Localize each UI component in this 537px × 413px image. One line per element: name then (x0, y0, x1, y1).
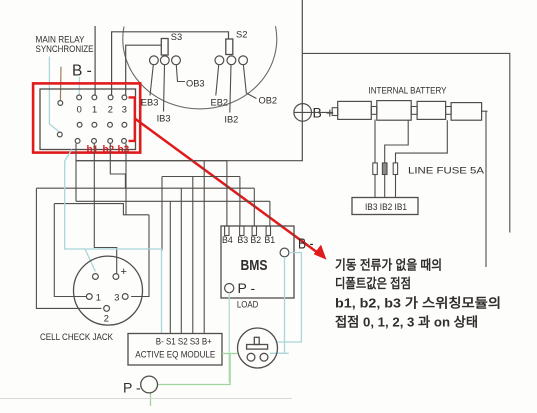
contact IB2 (227, 56, 236, 65)
wire jack3 riser (131, 215, 149, 297)
relay module outline circle (123, 26, 277, 109)
svg-text:INTERNAL BATTERY: INTERNAL BATTERY (369, 86, 447, 96)
svg-text:SYNCHRONIZE: SYNCHRONIZE (36, 44, 94, 54)
wire left tall to jack2 (36, 188, 101, 308)
wire BMS B3 drop (239, 177, 241, 227)
connector pins row A (58, 101, 63, 106)
svg-text:2: 2 (104, 314, 109, 324)
wire fuse3 to IB box (395, 175, 397, 198)
battery right tick (482, 110, 488, 112)
B+ terminal (294, 104, 312, 122)
fuse 1 (373, 163, 378, 175)
wire fuse2 to IB box (384, 175, 386, 198)
fuse 3 (393, 163, 397, 175)
svg-text:P -: P - (238, 280, 256, 296)
wire cyan module to jack and EQ B- (65, 150, 162, 334)
svg-text:IB3 IB2 IB1: IB3 IB2 IB1 (365, 202, 407, 213)
wire B- to pin1 (94, 26, 96, 95)
cell check jack body (74, 256, 143, 325)
battery cell 4 (451, 103, 482, 121)
wire top-right horizontal (302, 53, 510, 232)
wire bus B1 (76, 200, 270, 202)
BMS pin B2 (252, 226, 256, 236)
wire left to jack1 (54, 204, 86, 297)
svg-text:LINE FUSE 5A: LINE FUSE 5A (408, 166, 485, 177)
wire right vertical (485, 111, 487, 267)
contact EB2 (215, 56, 224, 65)
svg-text:P -: P - (123, 380, 141, 396)
wire B3 bus left drop (161, 177, 163, 251)
wire cyan BMS B- right loop (277, 253, 301, 343)
wire pale P- drop (228, 293, 230, 383)
BMS P- terminal (225, 284, 234, 293)
battery cell 3 (417, 101, 446, 119)
wire EQ S3 riser (192, 177, 194, 334)
wire EQ S2 riser (180, 188, 182, 333)
svg-text:b1, b2, b3 가 스위칭모듈의: b1, b2, b3 가 스위칭모듈의 (335, 296, 501, 311)
jack pin 3 (122, 294, 128, 300)
active EQ module box (128, 334, 222, 366)
wire cyan BMS B- down (270, 257, 289, 353)
svg-text:B -: B - (298, 236, 314, 253)
scan artifact line (0, 398, 292, 400)
svg-text:B1: B1 (264, 235, 275, 245)
battery link 1 (371, 107, 377, 115)
wire fuse 2 (385, 120, 409, 163)
svg-text:OB3: OB3 (186, 79, 205, 89)
contact OB2 (239, 56, 248, 65)
jack pin TL (93, 274, 99, 280)
svg-text:2: 2 (108, 105, 113, 115)
wire b1 to jack plus (94, 144, 116, 274)
svg-text:디폴트값은 접점: 디폴트값은 접점 (335, 276, 411, 291)
wire brown to connector top-left pin (59, 67, 62, 101)
fuse 2 (382, 163, 387, 175)
svg-text:S2: S2 (236, 30, 247, 40)
wire S3 net (126, 45, 162, 95)
wire b3 vertical (125, 144, 127, 215)
wire fuse 1 (374, 120, 376, 163)
red bracket on pins 3/b3 (129, 97, 135, 140)
wire BMS B2 drop (253, 188, 255, 226)
svg-text:IB2: IB2 (224, 115, 238, 125)
BMS pin B1 (266, 226, 270, 236)
svg-text:기동 전류가 없을 때의: 기동 전류가 없을 때의 (335, 258, 442, 273)
connector pins row C (75, 139, 80, 144)
svg-text:+: + (121, 266, 127, 278)
BMS pin B3 (240, 226, 244, 236)
jack pin 1 (86, 294, 92, 300)
wire b0 vertical (75, 144, 77, 202)
svg-text:CELL CHECK JACK: CELL CHECK JACK (40, 332, 114, 342)
svg-text:b3: b3 (118, 145, 130, 156)
svg-text:b1: b1 (87, 145, 99, 156)
BMS B- terminal (280, 248, 289, 257)
BMS box (221, 226, 294, 298)
wire fuse 3 (396, 120, 448, 163)
wire cyan to pin 0 (78, 77, 80, 95)
wire bus B3 (162, 176, 240, 178)
svg-text:1: 1 (92, 105, 97, 115)
jack pin 2 (104, 306, 110, 312)
svg-text:EB3: EB3 (141, 98, 159, 108)
connector pins row B (77, 122, 82, 127)
wire EQ S1 riser (169, 201, 171, 333)
wire jack1 bus (54, 204, 149, 215)
switch S2 (226, 39, 233, 55)
wire bus B2 (36, 187, 254, 189)
svg-text:EB2: EB2 (211, 98, 229, 108)
BMS pin B4 (225, 226, 229, 236)
svg-text:0: 0 (77, 105, 82, 115)
wire cyan into connector left (49, 57, 59, 133)
svg-text:ACTIVE EQ MODULE: ACTIVE EQ MODULE (135, 350, 215, 360)
wire BMS B4 drop (226, 161, 228, 226)
battery cell 2 (377, 101, 411, 121)
wire green P- stub down (150, 393, 152, 406)
enclosure box right/bottom edges (76, 0, 303, 161)
wire B+ to battery (312, 111, 334, 113)
wire bus B4 (76, 160, 227, 162)
red arrow callout (135, 119, 322, 256)
wire green EQ to load (222, 353, 238, 355)
IB terminal box (352, 198, 418, 215)
svg-text:B -: B - (72, 63, 92, 80)
contact EB3 (150, 56, 159, 65)
switching module red highlight box (33, 83, 140, 152)
battery cell 1 (332, 108, 338, 116)
svg-text:1: 1 (96, 293, 101, 303)
contact IB3 (160, 56, 169, 65)
svg-text:IB3: IB3 (157, 114, 171, 124)
svg-text:3: 3 (122, 105, 127, 115)
svg-text:B3: B3 (237, 235, 248, 245)
svg-text:b2: b2 (103, 145, 115, 156)
svg-text:B4: B4 (222, 235, 233, 245)
battery link 2 (411, 107, 417, 115)
wire b2 jog to bus B2 (110, 144, 125, 189)
wire S2 net (112, 32, 229, 95)
svg-text:접점 0, 1, 2, 3 과 on 상태: 접점 0, 1, 2, 3 과 on 상태 (335, 315, 478, 330)
svg-text:B2: B2 (250, 235, 261, 245)
switch S3 (161, 39, 168, 56)
svg-text:B- S1 S2 S3 B+: B- S1 S2 S3 B+ (156, 337, 212, 347)
svg-text:S3: S3 (171, 32, 182, 42)
load socket symbol (238, 328, 278, 368)
battery link 3 (446, 107, 452, 115)
P- terminal circle (141, 376, 158, 393)
wire BMS B1 drop (269, 201, 271, 226)
svg-text:LOAD: LOAD (237, 300, 259, 311)
wire fuse1 to IB box (374, 175, 376, 198)
svg-text:MAIN RELAY: MAIN RELAY (36, 35, 85, 45)
contact OB3 (172, 56, 181, 65)
svg-text:OB2: OB2 (259, 96, 278, 106)
jack pin plus (113, 274, 119, 280)
svg-text:BMS: BMS (241, 258, 268, 274)
wire EQ B+ riser (203, 161, 205, 334)
wire green P- loop (158, 354, 231, 385)
switching module connector body (40, 89, 136, 150)
svg-text:3: 3 (114, 293, 119, 303)
